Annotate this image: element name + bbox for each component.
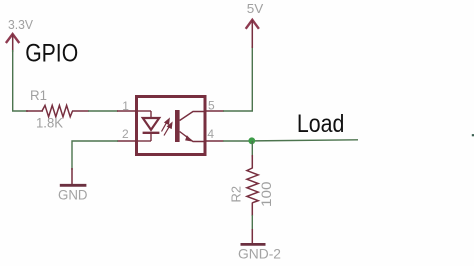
resistor R1 — [26, 88, 89, 131]
svg-text:5V: 5V — [247, 1, 264, 16]
wire stub at right edge — [472, 134, 474, 136]
LED inside U1 — [138, 111, 159, 141]
node junction — [248, 137, 255, 144]
svg-text:R2: R2 — [229, 186, 244, 203]
wire 3.3V to R1 — [13, 50, 28, 111]
wire U1 pin2 to GND — [72, 141, 118, 170]
wire U1 pin5 to 5V — [223, 46, 252, 111]
emission arrows — [162, 119, 173, 136]
svg-text:GPIO: GPIO — [25, 39, 78, 67]
svg-text:GND-2: GND-2 — [238, 245, 281, 261]
svg-text:GND: GND — [58, 188, 88, 203]
ground GND — [58, 168, 88, 203]
ground GND-2 — [238, 229, 281, 261]
svg-text:1: 1 — [122, 99, 129, 113]
svg-text:Load: Load — [297, 110, 345, 138]
svg-text:4: 4 — [207, 127, 214, 141]
svg-text:R1: R1 — [30, 88, 47, 103]
svg-text:100: 100 — [258, 181, 274, 207]
wire load node to Load — [252, 140, 358, 141]
wire R1 to U1 pin1 — [88, 110, 118, 112]
svg-text:3.3V: 3.3V — [8, 17, 33, 32]
pin 2 — [117, 127, 136, 141]
svg-text:5: 5 — [208, 99, 215, 113]
wire node to R2 — [251, 141, 253, 157]
power symbol 5V — [246, 1, 264, 48]
wire U1 pin4 to load node — [223, 140, 252, 142]
resistor R2 — [229, 155, 274, 216]
svg-text:1.8K: 1.8K — [36, 116, 63, 131]
phototransistor inside U1 — [175, 110, 204, 142]
svg-text:2: 2 — [122, 127, 129, 141]
wire R2 to GND-2 — [251, 215, 253, 230]
pin 1 — [117, 99, 136, 113]
power symbol 3.3V — [6, 17, 33, 52]
pin 5 — [205, 99, 224, 113]
opto-coupler U1 box — [137, 97, 206, 155]
pin 4 — [204, 127, 224, 141]
